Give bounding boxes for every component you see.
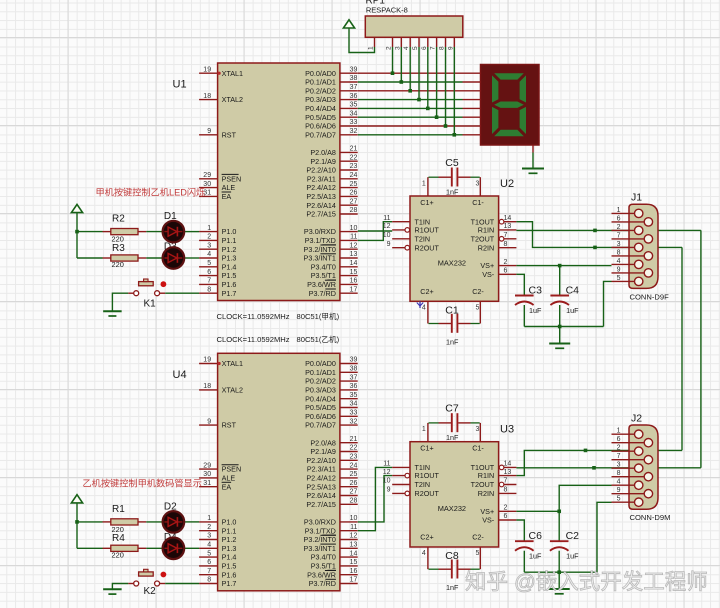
svg-text:1: 1 (207, 515, 211, 522)
svg-text:33: 33 (350, 119, 358, 126)
7seg segment A (494, 73, 524, 79)
svg-text:1: 1 (422, 426, 426, 433)
U3 label C2- (472, 533, 484, 542)
U4 pin 28 P2.7/A15 (306, 498, 357, 509)
svg-text:4: 4 (422, 305, 426, 312)
svg-text:12: 12 (350, 533, 358, 540)
svg-text:P2.6/A14: P2.6/A14 (306, 201, 336, 210)
U1 pin 21 P2.0/A8 (310, 146, 357, 157)
svg-text:P3.3/INT1: P3.3/INT1 (304, 544, 336, 553)
wire D4 to P1.3 (185, 547, 200, 549)
wire U4 P3.1 to U3 T1IN (358, 467, 392, 530)
power VCC arrow RP1 (343, 20, 354, 34)
7seg pin row 4 (463, 107, 481, 109)
svg-text:8: 8 (207, 286, 211, 293)
svg-text:12: 12 (383, 469, 391, 476)
svg-text:1uF: 1uF (566, 306, 579, 315)
resistor R1 220 (103, 504, 147, 534)
U3 pin 13 R1IN (478, 469, 517, 480)
U2 pin 7 T2OUT (471, 232, 517, 243)
svg-text:3: 3 (475, 181, 479, 188)
LED D1 (163, 221, 185, 243)
wire VS+ down to C2 (558, 511, 560, 541)
svg-text:1: 1 (422, 181, 426, 188)
resistor R4 220 (103, 533, 147, 559)
svg-text:13: 13 (350, 251, 358, 258)
RP1 pin 1 (368, 37, 375, 50)
label U4 (173, 369, 187, 381)
svg-text:32: 32 (350, 418, 358, 425)
svg-text:P0.0/AD0: P0.0/AD0 (305, 359, 336, 368)
svg-text:1: 1 (207, 225, 211, 232)
svg-text:25: 25 (350, 181, 358, 188)
7seg segment E (492, 107, 498, 134)
svg-text:C2-: C2- (472, 533, 484, 542)
svg-text:9: 9 (207, 128, 211, 135)
wire R3 row (77, 257, 103, 259)
U1 pin 6 P1.5 (199, 269, 236, 280)
U4 pin 25 P2.4/A12 (306, 471, 357, 482)
junction VCC R1 (75, 520, 79, 524)
svg-text:1nF: 1nF (446, 338, 459, 347)
svg-text:23: 23 (350, 454, 358, 461)
wire P0.6 bus row (358, 125, 463, 127)
RP1 pin 9 (447, 37, 454, 50)
wire crossover left (681, 247, 683, 450)
wire ground row top (524, 326, 603, 328)
U4 pin 16 P3.6/WR (307, 568, 358, 579)
ground C6 C2 (549, 589, 570, 594)
svg-text:P3.5/T1: P3.5/T1 (311, 271, 336, 280)
svg-text:1uF: 1uF (529, 552, 542, 561)
junction VS+ C4 (558, 264, 562, 268)
U4 pin 30 ALE (199, 471, 235, 482)
svg-text:CLOCK=11.0592MHz: CLOCK=11.0592MHz (217, 312, 290, 321)
U1 pin 27 P2.6/A14 (306, 198, 357, 209)
U3 pin 1 (422, 423, 428, 442)
svg-text:32: 32 (350, 128, 358, 135)
U1 pin 32 P0.7/AD7 (305, 128, 358, 139)
junction RP1-9 P0.7 (453, 133, 457, 137)
svg-text:6: 6 (504, 268, 508, 275)
MCU U1 80C51 body (218, 63, 340, 301)
svg-text:P3.4/T0: P3.4/T0 (311, 553, 336, 562)
wire 7seg common to ground (532, 153, 534, 169)
U3 pin 6 VS- (482, 513, 516, 524)
U1 pin 35 P0.4/AD4 (305, 102, 358, 113)
U4 pin 18 XTAL2 (199, 383, 243, 394)
svg-text:U4: U4 (173, 369, 187, 381)
J1 pin 2 (612, 224, 639, 231)
svg-text:14: 14 (504, 461, 512, 468)
svg-text:VS-: VS- (482, 516, 495, 525)
wire K2 right to P1.7 (165, 583, 199, 585)
svg-text:乙机按键控制甲机数码管显示: 乙机按键控制甲机数码管显示 (83, 477, 202, 488)
svg-text:P0.3/AD3: P0.3/AD3 (305, 386, 336, 395)
svg-text:36: 36 (350, 93, 358, 100)
U4 pin 32 P0.7/AD7 (305, 418, 358, 429)
svg-text:6: 6 (504, 513, 508, 520)
U2 pin 4 (422, 301, 428, 323)
svg-text:31: 31 (203, 480, 211, 487)
U4 pin 31 EA (199, 480, 231, 491)
junction J1 pin3 row (593, 246, 597, 250)
label U2 (500, 178, 514, 190)
wire crossover right (700, 230, 702, 467)
U2 pin 12 R1OUT (383, 223, 440, 234)
LED D2 (163, 511, 185, 533)
svg-text:15: 15 (350, 269, 358, 276)
U3 pin 4 (422, 547, 428, 569)
svg-text:18: 18 (203, 93, 211, 100)
svg-text:U2: U2 (500, 178, 514, 190)
svg-text:19: 19 (203, 66, 211, 73)
U3 pin 7 T2OUT (471, 478, 517, 489)
svg-text:P2.6/A14: P2.6/A14 (306, 491, 336, 500)
U2 pin 8 R2IN (478, 241, 517, 252)
U2 pin 14 T1OUT (471, 215, 517, 226)
wire row J2 pin3 (594, 467, 701, 469)
svg-text:P0.5/AD5: P0.5/AD5 (305, 403, 336, 412)
svg-text:P2.3/A11: P2.3/A11 (307, 465, 336, 474)
U4 pin 7 P1.6 (199, 568, 236, 579)
label U1 (173, 79, 187, 91)
wire RP1 pin 3 to P0.1 (400, 47, 402, 82)
svg-text:3: 3 (394, 46, 401, 50)
svg-text:J1: J1 (631, 192, 642, 204)
J1 pin 5 (612, 275, 639, 282)
J2 pin 1 (612, 428, 639, 435)
svg-text:1: 1 (617, 207, 621, 214)
svg-text:XTAL1: XTAL1 (222, 359, 243, 368)
U1 pin 19 XTAL1 (199, 66, 243, 77)
resistor pack RP1 body (365, 16, 463, 37)
svg-text:P2.0/A8: P2.0/A8 (310, 148, 336, 157)
U1 pin 8 P1.7 (199, 286, 236, 297)
svg-text:4: 4 (617, 479, 621, 486)
U1 pin 26 P2.5/A13 (306, 190, 357, 201)
svg-text:P3.6/WR: P3.6/WR (307, 570, 336, 579)
svg-text:C2: C2 (566, 530, 580, 542)
U2 label C2+ (420, 287, 433, 296)
svg-text:24: 24 (350, 172, 358, 179)
junction RP1-6 P0.4 (426, 107, 430, 111)
U3 pin 12 R1OUT (383, 469, 440, 480)
wire U3 T1OUT row (516, 467, 594, 469)
svg-text:P2.7/A15: P2.7/A15 (306, 500, 336, 509)
svg-text:P3.4/T0: P3.4/T0 (311, 262, 336, 271)
wire P0.7 bus row (358, 134, 463, 136)
svg-text:8: 8 (207, 577, 211, 584)
U2 label C1- (472, 198, 484, 207)
svg-text:10: 10 (350, 225, 358, 232)
wire RP1 pin 8 to P0.6 (445, 47, 447, 126)
svg-text:33: 33 (350, 410, 358, 417)
svg-text:3: 3 (617, 462, 621, 469)
junction U3 VS+ (557, 510, 561, 514)
wire VCC to R3 (76, 232, 78, 258)
svg-text:P3.7/RD: P3.7/RD (309, 579, 336, 588)
svg-text:7: 7 (207, 568, 211, 575)
J2 pin 8 (612, 470, 649, 477)
svg-text:5: 5 (412, 46, 419, 50)
svg-text:2: 2 (617, 224, 621, 231)
7seg segment B (520, 75, 526, 102)
wire J2 pin5 to ground row (597, 502, 612, 572)
svg-text:VS+: VS+ (480, 261, 494, 270)
U1 pin 9 RST (199, 128, 236, 139)
svg-text:P3.1/TXD: P3.1/TXD (305, 236, 336, 245)
U4 pin 9 RST (199, 418, 236, 429)
U1 pin 10 P3.0/RXD (304, 225, 358, 236)
svg-text:K1: K1 (144, 299, 157, 310)
U4 pin 15 P3.5/T1 (311, 559, 358, 570)
U3 pin 3 (475, 423, 480, 442)
svg-text:P0.5/AD5: P0.5/AD5 (305, 113, 336, 122)
wire K1 right to P1.7 (165, 292, 199, 294)
svg-text:6: 6 (617, 436, 621, 443)
U4 pin 19 XTAL1 (199, 357, 243, 368)
U1 pin 2 P1.1 (199, 234, 236, 245)
capacitor C6 1uF (515, 530, 542, 561)
svg-text:1uF: 1uF (529, 306, 542, 315)
svg-text:3: 3 (617, 241, 621, 248)
U1 pin 17 P3.7/RD (309, 286, 358, 297)
IC U3 MAX232 body (410, 442, 499, 547)
J1 pin 8 (612, 249, 649, 256)
U1 pin 23 P2.2/A10 (306, 163, 357, 174)
junction RP1-4 P0.2 (408, 89, 412, 93)
svg-text:P1.1: P1.1 (222, 526, 237, 535)
junction J2 pin2 row (584, 449, 588, 453)
svg-text:MAX232: MAX232 (438, 259, 466, 268)
RP1 pin 6 (421, 37, 428, 50)
U2 label C2- (472, 287, 484, 296)
wire D1 to P1.0 (185, 231, 200, 233)
svg-text:T2IN: T2IN (415, 234, 431, 243)
svg-text:R1IN: R1IN (478, 471, 494, 480)
svg-text:6: 6 (617, 215, 621, 222)
svg-text:P1.6: P1.6 (222, 280, 237, 289)
svg-text:P3.6/WR: P3.6/WR (307, 280, 336, 289)
svg-text:P2.7/A15: P2.7/A15 (306, 210, 336, 219)
svg-text:R1OUT: R1OUT (415, 226, 440, 235)
svg-text:P3.5/T1: P3.5/T1 (311, 562, 336, 571)
svg-text:8: 8 (617, 470, 621, 477)
wire VCC-R2 row (77, 231, 103, 233)
U1 pin 25 P2.4/A12 (306, 181, 357, 192)
wire U2 T1OUT (516, 222, 595, 248)
svg-text:XTAL2: XTAL2 (222, 386, 243, 395)
svg-text:RST: RST (222, 130, 237, 139)
J1 pin 3 (612, 241, 639, 248)
svg-text:38: 38 (350, 366, 358, 373)
U1 pin 5 P1.4 (199, 260, 236, 271)
U2 pin 2 VS+ (480, 259, 516, 270)
svg-text:CONN-D9M: CONN-D9M (630, 513, 671, 522)
7seg pin row 0 (463, 72, 481, 74)
svg-text:PSEN: PSEN (222, 174, 242, 183)
svg-text:9: 9 (387, 487, 391, 494)
svg-text:34: 34 (350, 110, 358, 117)
resistor R2 220 (103, 214, 147, 244)
svg-text:P1.1: P1.1 (222, 236, 237, 245)
svg-text:ALE: ALE (222, 183, 236, 192)
svg-text:11: 11 (383, 461, 390, 468)
svg-text:8: 8 (617, 249, 621, 256)
junction ground row (558, 325, 562, 329)
wire P0.2 bus row (358, 90, 463, 92)
svg-text:21: 21 (350, 436, 358, 443)
wire P0.3 bus row (358, 99, 463, 101)
MCU U4 80C51 body (218, 353, 340, 591)
capacitor C2 1uF (550, 530, 579, 561)
U3 pin 8 R2IN (478, 487, 517, 498)
svg-text:9: 9 (447, 46, 454, 50)
svg-text:P0.6/AD6: P0.6/AD6 (305, 412, 336, 421)
svg-text:P1.7: P1.7 (222, 579, 237, 588)
svg-text:7: 7 (617, 453, 621, 460)
svg-text:38: 38 (350, 75, 358, 82)
svg-text:U1: U1 (173, 79, 187, 91)
U4 pin 37 P0.2/AD2 (305, 374, 358, 385)
U4 pin 36 P0.3/AD3 (305, 383, 358, 394)
wire row J2 pin2 (586, 449, 683, 451)
svg-text:2: 2 (207, 234, 211, 241)
svg-text:16: 16 (350, 278, 358, 285)
svg-text:VS-: VS- (482, 270, 495, 279)
svg-text:C4: C4 (566, 285, 580, 297)
junction RP1-8 P0.6 (444, 124, 448, 128)
U4 pin 17 P3.7/RD (309, 577, 358, 588)
svg-text:C1-: C1- (472, 198, 484, 207)
svg-text:9: 9 (617, 487, 621, 494)
svg-text:4: 4 (207, 542, 211, 549)
svg-text:39: 39 (350, 66, 358, 73)
svg-text:J2: J2 (631, 413, 642, 425)
svg-text:P1.3: P1.3 (222, 544, 237, 553)
svg-text:C1+: C1+ (420, 198, 433, 207)
U4 pin 39 P0.0/AD0 (305, 357, 358, 368)
svg-text:12: 12 (383, 223, 391, 230)
U1 pin 24 P2.3/A11 (307, 172, 358, 183)
RP1 pin 5 (412, 37, 419, 50)
svg-text:P2.4/A12: P2.4/A12 (306, 183, 336, 192)
U4 pin 21 P2.0/A8 (310, 436, 357, 447)
svg-text:R4: R4 (112, 533, 125, 544)
U1 pin 1 P1.0 (199, 225, 236, 236)
svg-text:4: 4 (617, 258, 621, 265)
svg-text:8: 8 (439, 46, 446, 50)
svg-text:35: 35 (350, 102, 358, 109)
svg-text:P1.2: P1.2 (222, 245, 237, 254)
svg-text:5: 5 (475, 305, 479, 312)
svg-text:220: 220 (112, 550, 124, 559)
U1 pin 4 P1.3 (199, 251, 236, 262)
U4 pin 33 P0.6/AD6 (305, 410, 358, 421)
svg-text:13: 13 (350, 542, 358, 549)
U4 pin 27 P2.6/A14 (306, 489, 357, 500)
wire R4 to D4 (146, 547, 162, 549)
U1 pin 39 P0.0/AD0 (305, 66, 358, 77)
svg-text:P2.2/A10: P2.2/A10 (306, 166, 336, 175)
U4 pin 8 P1.7 (199, 577, 236, 588)
svg-text:P2.4/A12: P2.4/A12 (306, 474, 336, 483)
svg-text:C6: C6 (529, 530, 543, 542)
label CLOCK=11.0592MHz 80C51(JIA) (217, 311, 340, 321)
U4 pin 22 P2.1/A9 (310, 445, 357, 456)
wire U2 VS+ to J1 pin4 (516, 265, 611, 267)
wire R2 to D1 (146, 231, 162, 233)
U4 pin 2 P1.1 (199, 524, 236, 535)
wire C2 bottom (558, 551, 560, 573)
7seg pin row 1 (463, 81, 481, 83)
label D3 (164, 242, 177, 253)
svg-text:P2.1/A9: P2.1/A9 (310, 447, 336, 456)
J2 pin 5 (612, 496, 639, 503)
svg-text:C1: C1 (445, 305, 459, 317)
capacitor C5 1nF (429, 157, 480, 197)
U4 pin 6 P1.5 (199, 559, 236, 570)
U1 pin 11 P3.1/TXD (305, 234, 358, 245)
J2 pin 2 (612, 445, 639, 452)
svg-text:P0.2/AD2: P0.2/AD2 (305, 377, 336, 386)
7seg common pin (532, 145, 534, 153)
J1 pin 9 (612, 266, 649, 273)
svg-text:11: 11 (350, 234, 357, 241)
U2 pin 13 R1IN (478, 223, 517, 234)
junction ground row bottom (557, 570, 561, 574)
svg-text:14: 14 (350, 550, 358, 557)
wire K1 left to ground (112, 293, 128, 311)
U2 label C1+ (420, 198, 433, 207)
svg-text:26: 26 (350, 480, 358, 487)
svg-text:P1.5: P1.5 (222, 271, 237, 280)
svg-text:C7: C7 (445, 403, 459, 415)
svg-text:17: 17 (350, 286, 358, 293)
connector J1 CONN-D9F body (629, 204, 658, 288)
wire D3 to P1.3 (185, 257, 200, 259)
J2 pin 9 (612, 487, 649, 494)
svg-text:P1.3: P1.3 (222, 254, 237, 263)
U2 pin 6 VS- (482, 268, 516, 279)
wire D2 to P1.0 (185, 521, 200, 523)
svg-text:P0.7/AD7: P0.7/AD7 (305, 421, 336, 430)
7seg segment G (494, 102, 524, 108)
U1 pin 14 P3.4/T0 (311, 260, 358, 271)
U2 pin 1 (422, 177, 428, 196)
J1 pin 4 (612, 258, 639, 265)
wire U3 VS+ row (516, 510, 559, 512)
svg-text:K2: K2 (144, 586, 157, 597)
svg-text:R1: R1 (112, 504, 125, 515)
svg-text:7: 7 (207, 278, 211, 285)
U2 pin 3 (475, 177, 480, 196)
U1 pin 22 P2.1/A9 (310, 154, 357, 165)
svg-text:37: 37 (350, 84, 358, 91)
svg-text:P1.0: P1.0 (222, 518, 237, 527)
svg-text:RST: RST (222, 421, 237, 430)
svg-text:C2-: C2- (472, 287, 484, 296)
svg-text:12: 12 (350, 242, 358, 249)
svg-text:P3.0/RXD: P3.0/RXD (304, 518, 336, 527)
svg-text:7: 7 (430, 46, 437, 50)
label U3 (500, 424, 514, 436)
U2 pin 5 (475, 301, 480, 323)
svg-text:1nF: 1nF (446, 583, 459, 592)
power VCC arrow left bottom (71, 495, 82, 522)
svg-text:13: 13 (504, 223, 512, 230)
